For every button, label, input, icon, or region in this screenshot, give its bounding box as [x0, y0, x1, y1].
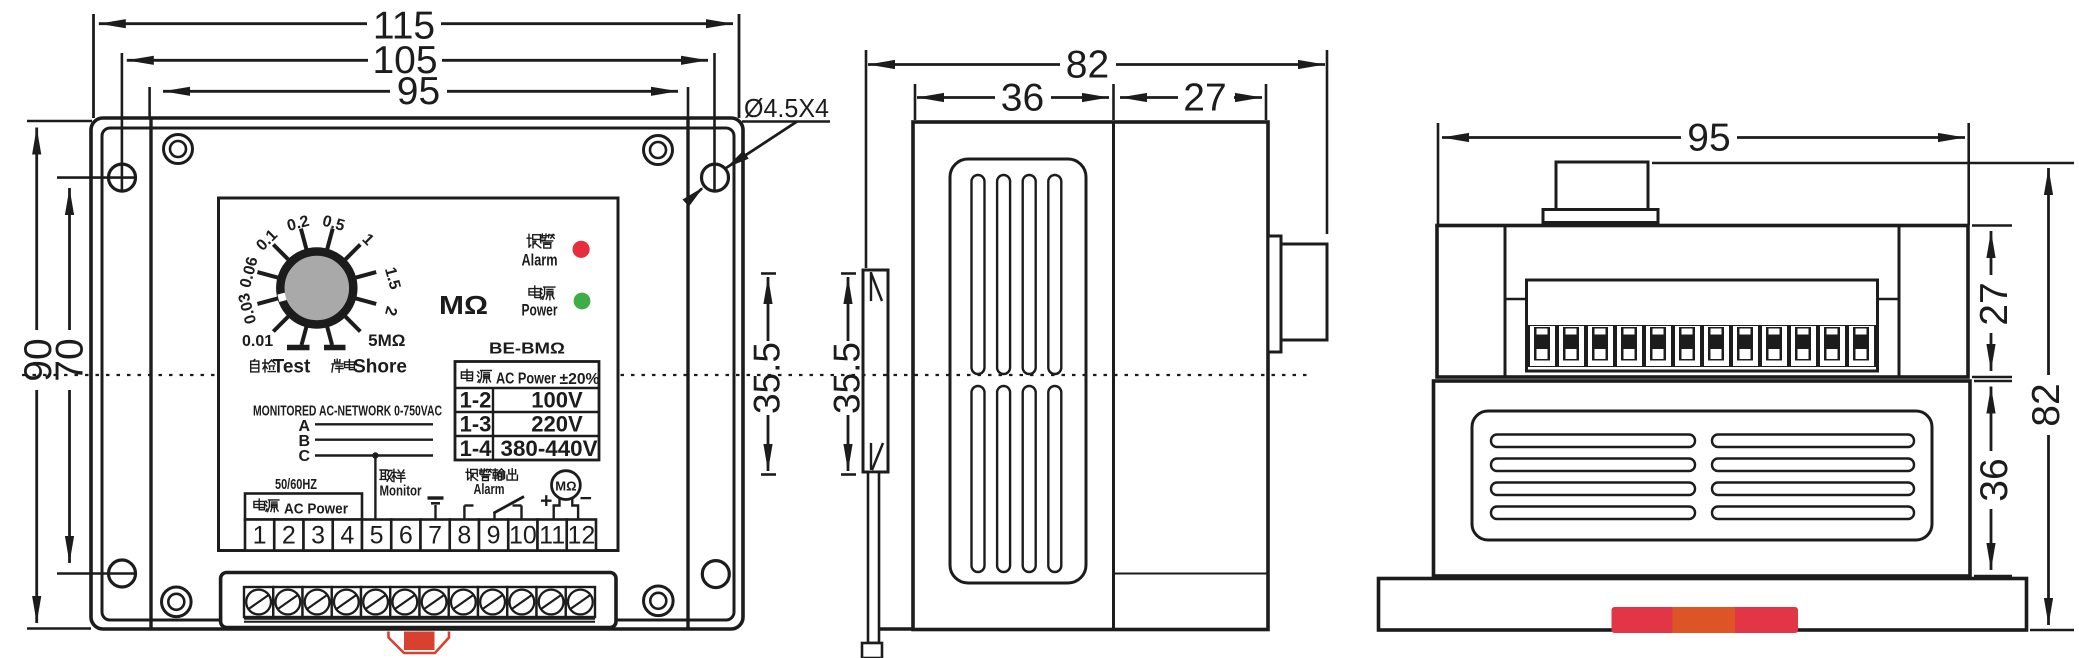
svg-text:1: 1 — [253, 522, 267, 550]
second leader arrow — [688, 189, 702, 202]
Power label — [529, 286, 541, 298]
dotted centerline — [22, 374, 1311, 376]
side view rear step line — [1114, 573, 1269, 575]
front label panel — [219, 198, 619, 551]
side dim 35.5 left ticks — [761, 272, 776, 275]
label Shore — [332, 359, 343, 372]
rear vent panel — [1472, 411, 1932, 540]
side vent slots lower — [972, 386, 985, 572]
terminal number strip — [245, 520, 274, 551]
dim 90 extension lines — [27, 120, 92, 123]
svg-text:11: 11 — [539, 522, 565, 550]
alarm output label — [466, 469, 478, 480]
svg-text:8: 8 — [457, 522, 471, 550]
side dim 36/27 extension lines — [914, 84, 917, 120]
svg-text:0.01: 0.01 — [242, 333, 273, 350]
side dim 35.5 right — [847, 277, 850, 341]
meter plus lead — [554, 499, 560, 520]
rear dim 36 extension lines — [1974, 380, 2012, 382]
svg-text:Monitor: Monitor — [380, 484, 422, 500]
svg-text:3: 3 — [311, 522, 325, 550]
svg-text:50/60HZ: 50/60HZ — [275, 476, 317, 493]
svg-text:7: 7 — [428, 522, 442, 550]
rear terminal block — [1527, 280, 1878, 371]
side rear connector strip — [1268, 236, 1281, 352]
svg-text:−: − — [580, 487, 592, 510]
side dim 35.5 right ticks — [841, 272, 856, 275]
svg-text:10: 10 — [509, 522, 537, 550]
side view body — [913, 122, 1268, 630]
table header text — [461, 369, 472, 380]
svg-text:MONITORED AC-NETWORK 0-750VAC: MONITORED AC-NETWORK 0-750VAC — [253, 404, 442, 420]
AC power box — [245, 494, 362, 520]
svg-text:220V: 220V — [531, 412, 583, 437]
svg-text:AC Power: AC Power — [496, 371, 556, 388]
table column divider — [492, 388, 494, 460]
svg-text:36: 36 — [1001, 77, 1044, 120]
power LED green — [574, 293, 591, 310]
side dim 82 — [868, 63, 1325, 66]
knob tick Test with foot — [302, 326, 307, 345]
table row lines — [455, 411, 599, 413]
side rear connector block — [1281, 244, 1327, 340]
dim 90 — [35, 128, 38, 624]
meter minus lead — [572, 499, 578, 520]
svg-text:5MΩ: 5MΩ — [368, 331, 405, 350]
dim 105 extension lines inside panel — [121, 118, 124, 190]
svg-text:35.5: 35.5 — [747, 342, 788, 414]
dim 115 — [99, 22, 733, 25]
leader arrow to hole — [726, 122, 797, 169]
svg-text:82: 82 — [2025, 383, 2068, 426]
side vent panel — [950, 159, 1086, 583]
side dim 35.5 left — [767, 277, 770, 341]
rear dim 27 extension lines — [1972, 224, 2012, 226]
svg-text:Alarm: Alarm — [474, 482, 505, 498]
front view dim 115 extension lines — [92, 14, 95, 118]
side dim 27 — [1120, 96, 1262, 99]
svg-text:Shore: Shore — [353, 357, 407, 378]
bottom terminal cells with screws — [244, 587, 273, 617]
svg-text:380-440V: 380-440V — [501, 436, 598, 461]
svg-text:27: 27 — [1973, 282, 2016, 325]
svg-text:C: C — [299, 448, 311, 465]
svg-text:82: 82 — [1066, 44, 1109, 87]
svg-text:Power: Power — [522, 301, 558, 320]
monitor wire from C to terminal 5 — [374, 456, 376, 520]
dim 95 — [163, 90, 678, 93]
rear top connector — [1556, 162, 1648, 210]
dim 70 extension lines — [57, 176, 136, 179]
svg-text:35.5: 35.5 — [827, 342, 868, 414]
rear housing tab lines — [1505, 298, 1527, 301]
dim 105 — [127, 59, 708, 62]
rear upper housing — [1437, 226, 1968, 378]
side vent slots upper — [972, 175, 985, 374]
svg-text:BE-BMΩ: BE-BMΩ — [489, 341, 565, 358]
side dim 36 — [917, 96, 1109, 99]
rear base plate — [1379, 579, 2027, 631]
label Test (self-check) — [251, 360, 259, 372]
alarm LED red — [573, 241, 590, 258]
hole leader arrow inside panel — [726, 122, 797, 169]
table header row line — [455, 387, 599, 389]
Alarm label — [527, 234, 541, 248]
rear red DIN clip bar — [1612, 607, 1799, 633]
rear dim 27 — [1990, 231, 1993, 371]
svg-text:+: + — [540, 490, 552, 513]
knob ticks — [327, 229, 333, 251]
junction dot on C line — [372, 452, 378, 458]
megohm meter symbol — [552, 471, 581, 500]
svg-text:AC Power: AC Power — [284, 501, 348, 518]
red DIN clip front view — [389, 632, 450, 654]
svg-text:±20%: ±20% — [560, 371, 600, 388]
svg-text:12: 12 — [567, 522, 595, 550]
svg-text:95: 95 — [397, 70, 440, 113]
svg-text:Test: Test — [273, 357, 311, 378]
body bottom edge to clip — [879, 627, 913, 630]
side view dim 82 extension lines — [865, 50, 868, 268]
rear terminal black band with 12 terminals — [1528, 325, 1877, 367]
relay contact terminal 8 — [463, 506, 465, 520]
front panel left flange line — [149, 119, 152, 628]
knob tick Shore with foot — [327, 326, 332, 345]
svg-text:6: 6 — [399, 522, 413, 550]
rear dim 95 extension lines — [1437, 123, 1440, 225]
front panel outer rounded rect — [91, 118, 743, 629]
sampling Monitor label — [380, 470, 392, 481]
svg-text:Alarm: Alarm — [522, 251, 558, 270]
AC power box text — [254, 499, 265, 510]
svg-text:MΩ: MΩ — [439, 290, 488, 320]
bottom strip double lines — [244, 618, 595, 620]
svg-text:1-2: 1-2 — [460, 388, 492, 413]
relay switch blade terminals 9-10 — [493, 513, 495, 520]
ground symbol at terminal 7 — [428, 496, 444, 499]
DIN release clip — [868, 472, 879, 643]
rear vent slots — [1491, 435, 1695, 448]
svg-text:36: 36 — [1973, 458, 2016, 501]
svg-text:1-4: 1-4 — [460, 436, 493, 461]
side view section divider — [1112, 122, 1115, 629]
rear dim 95 — [1442, 136, 1965, 139]
rear dim 82 — [2047, 168, 2050, 625]
svg-text:MΩ: MΩ — [555, 479, 576, 494]
front panel right flange line — [686, 119, 689, 628]
svg-text:Ø4.5X4: Ø4.5X4 — [744, 93, 829, 123]
rear dim 36 — [1990, 387, 1993, 571]
svg-text:1-3: 1-3 — [460, 412, 492, 437]
svg-text:27: 27 — [1183, 77, 1226, 120]
front panel inner rounded rect — [102, 128, 734, 620]
svg-text:2: 2 — [282, 522, 296, 550]
front bezel screws double circles — [164, 135, 193, 164]
dim 105 extension lines — [121, 53, 124, 190]
dim 70 extension lines inside panel — [91, 176, 136, 179]
rear lower housing — [1434, 381, 1971, 576]
dim 95 extension lines — [148, 87, 151, 118]
DIN rail profile — [863, 270, 888, 472]
knob pointer notch — [277, 293, 286, 302]
svg-text:100V: 100V — [531, 388, 583, 413]
svg-text:95: 95 — [1687, 117, 1730, 160]
svg-text:9: 9 — [487, 522, 501, 550]
rotary knob ring — [280, 252, 353, 325]
rear dim 82 extension lines — [1652, 162, 2074, 164]
svg-text:4: 4 — [340, 522, 354, 550]
dim 70 — [68, 188, 71, 563]
rear top connector flange — [1543, 210, 1658, 223]
front mounting holes — [109, 164, 136, 191]
svg-text:5: 5 — [370, 522, 384, 550]
bottom terminal strip outer box — [221, 573, 616, 628]
rear housing inner walls — [1504, 227, 1507, 376]
voltage table outer — [455, 362, 599, 461]
